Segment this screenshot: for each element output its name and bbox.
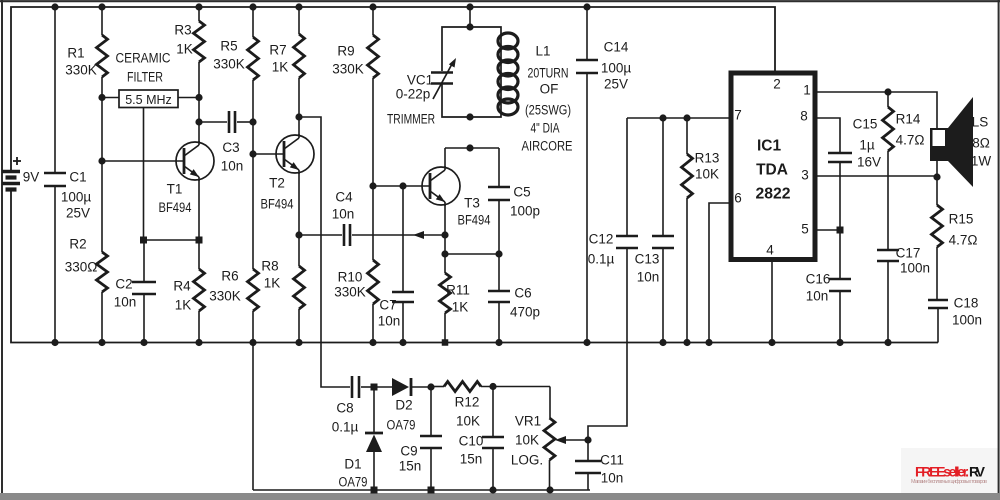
svg-text:C2: C2 xyxy=(115,277,132,292)
svg-text:330K: 330K xyxy=(334,285,366,300)
svg-text:C17: C17 xyxy=(896,246,921,261)
svg-text:5.5 MHz: 5.5 MHz xyxy=(125,93,172,107)
svg-text:AIRCORE: AIRCORE xyxy=(522,139,573,154)
svg-text:8Ω: 8Ω xyxy=(972,136,990,151)
svg-text:330K: 330K xyxy=(213,57,245,72)
svg-text:T2: T2 xyxy=(269,176,285,191)
svg-text:10n: 10n xyxy=(806,289,829,304)
svg-text:R3: R3 xyxy=(174,23,191,38)
svg-text:100n: 100n xyxy=(900,261,930,276)
svg-text:25V: 25V xyxy=(604,77,628,92)
svg-text:C16: C16 xyxy=(806,272,831,287)
svg-text:0.1µ: 0.1µ xyxy=(332,420,359,435)
svg-text:C12: C12 xyxy=(589,232,614,247)
svg-text:1K: 1K xyxy=(176,42,193,57)
svg-text:Магазин бесплатных цифровых то: Магазин бесплатных цифровых товаров xyxy=(911,479,987,485)
svg-text:L1: L1 xyxy=(535,44,550,59)
svg-text:7: 7 xyxy=(734,108,742,123)
svg-text:330K: 330K xyxy=(209,289,241,304)
svg-text:10n: 10n xyxy=(221,159,244,174)
svg-text:FREEseller.: FREEseller. xyxy=(915,464,969,480)
svg-text:100p: 100p xyxy=(510,204,540,219)
svg-text:1K: 1K xyxy=(175,298,192,313)
svg-text:330K: 330K xyxy=(332,62,364,77)
svg-text:R4: R4 xyxy=(173,279,191,294)
svg-text:C10: C10 xyxy=(459,434,484,449)
svg-text:3: 3 xyxy=(801,168,809,183)
svg-text:10n: 10n xyxy=(378,314,401,329)
svg-text:330K: 330K xyxy=(65,63,97,78)
svg-text:20TURN: 20TURN xyxy=(528,66,569,81)
svg-text:OF: OF xyxy=(540,82,559,97)
svg-text:5: 5 xyxy=(801,222,809,237)
svg-text:10n: 10n xyxy=(332,207,355,222)
svg-text:C14: C14 xyxy=(604,40,629,55)
svg-text:VC1: VC1 xyxy=(407,73,433,88)
svg-text:C4: C4 xyxy=(335,190,353,205)
svg-text:R2: R2 xyxy=(69,237,86,252)
svg-text:2: 2 xyxy=(773,77,781,92)
svg-text:T1: T1 xyxy=(167,182,183,197)
svg-text:C6: C6 xyxy=(514,286,531,301)
svg-text:C11: C11 xyxy=(600,453,624,468)
svg-text:10n: 10n xyxy=(637,270,660,285)
svg-text:330Ω: 330Ω xyxy=(65,260,98,275)
svg-text:4.7Ω: 4.7Ω xyxy=(949,233,978,248)
svg-text:C5: C5 xyxy=(513,185,530,200)
svg-text:10n: 10n xyxy=(114,295,137,310)
svg-text:100µ: 100µ xyxy=(61,190,92,205)
svg-text:C8: C8 xyxy=(336,401,353,416)
svg-text:TDA: TDA xyxy=(756,161,788,178)
svg-text:D1: D1 xyxy=(344,457,361,472)
svg-text:9V: 9V xyxy=(23,170,40,185)
svg-text:C13: C13 xyxy=(635,252,660,267)
svg-text:10K: 10K xyxy=(695,167,719,182)
svg-text:10K: 10K xyxy=(456,414,480,429)
svg-text:CERAMIC: CERAMIC xyxy=(116,51,171,66)
svg-text:2822: 2822 xyxy=(756,185,791,202)
svg-text:R6: R6 xyxy=(221,269,238,284)
svg-text:BF494: BF494 xyxy=(261,197,294,212)
svg-text:0.1µ: 0.1µ xyxy=(588,252,615,267)
svg-text:BF494: BF494 xyxy=(159,200,192,215)
svg-text:1W: 1W xyxy=(971,154,992,169)
svg-text:100n: 100n xyxy=(952,313,982,328)
svg-text:C18: C18 xyxy=(954,296,979,311)
svg-text:R14: R14 xyxy=(896,112,921,127)
svg-text:RV: RV xyxy=(969,464,986,480)
svg-text:1µ: 1µ xyxy=(859,138,875,153)
svg-text:FILTER: FILTER xyxy=(127,70,163,85)
svg-text:R9: R9 xyxy=(337,44,354,59)
svg-text:C7: C7 xyxy=(379,298,396,313)
svg-text:R8: R8 xyxy=(261,259,278,274)
svg-text:25V: 25V xyxy=(66,206,90,221)
svg-text:R11: R11 xyxy=(446,283,470,298)
svg-text:C9: C9 xyxy=(400,444,417,459)
svg-text:16V: 16V xyxy=(857,155,881,170)
svg-text:VR1: VR1 xyxy=(515,414,541,429)
svg-text:R13: R13 xyxy=(695,151,720,166)
svg-text:1K: 1K xyxy=(452,300,469,315)
svg-text:LOG.: LOG. xyxy=(511,453,543,468)
svg-text:OA79: OA79 xyxy=(339,475,368,490)
svg-text:4: 4 xyxy=(766,243,774,258)
svg-text:C1: C1 xyxy=(69,170,86,185)
svg-text:TRIMMER: TRIMMER xyxy=(387,112,435,127)
svg-text:15n: 15n xyxy=(399,459,422,474)
svg-text:470p: 470p xyxy=(510,305,540,320)
svg-text:BF494: BF494 xyxy=(458,213,491,228)
svg-text:IC1: IC1 xyxy=(757,137,782,154)
svg-text:1K: 1K xyxy=(272,60,289,75)
svg-text:C15: C15 xyxy=(853,117,878,132)
svg-text:D2: D2 xyxy=(395,398,412,413)
svg-text:R7: R7 xyxy=(269,43,286,58)
svg-text:10n: 10n xyxy=(601,471,624,486)
svg-text:10K: 10K xyxy=(515,433,539,448)
svg-text:R10: R10 xyxy=(338,270,363,285)
svg-text:OA79: OA79 xyxy=(387,418,416,433)
svg-text:6: 6 xyxy=(734,191,742,206)
svg-text:R12: R12 xyxy=(455,395,480,410)
svg-text:R15: R15 xyxy=(949,212,974,227)
svg-text:(25SWG): (25SWG) xyxy=(525,103,571,118)
svg-text:4.7Ω: 4.7Ω xyxy=(896,133,925,148)
svg-text:15n: 15n xyxy=(460,452,483,467)
svg-text:T3: T3 xyxy=(464,196,480,211)
svg-text:C3: C3 xyxy=(222,140,239,155)
svg-text:R5: R5 xyxy=(220,39,237,54)
svg-text:LS: LS xyxy=(972,115,989,130)
svg-text:1: 1 xyxy=(803,83,811,98)
svg-text:1K: 1K xyxy=(264,276,281,291)
svg-text:100µ: 100µ xyxy=(601,61,632,76)
svg-text:4" DIA: 4" DIA xyxy=(531,121,560,136)
svg-text:0-22p: 0-22p xyxy=(396,87,431,102)
svg-text:8: 8 xyxy=(800,109,808,124)
svg-text:R1: R1 xyxy=(67,46,84,61)
